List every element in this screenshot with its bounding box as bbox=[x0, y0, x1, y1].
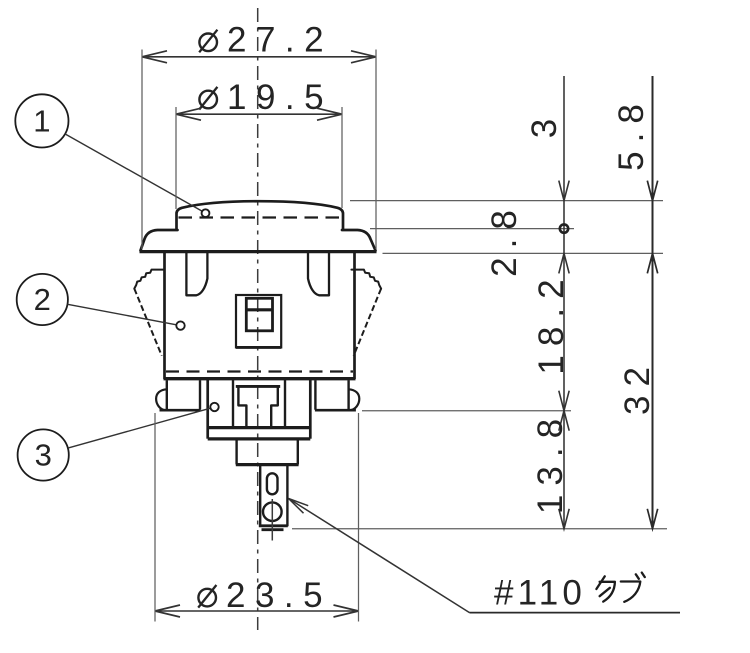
left bottom latch with hook bbox=[166, 380, 168, 409]
outer vertical dimension line bbox=[652, 76, 654, 529]
Ø27.2 dimension line bbox=[142, 56, 376, 58]
balloon 2 circle bbox=[17, 274, 68, 325]
svg-text:1: 1 bbox=[33, 104, 50, 139]
Ø27.2 extension lines bbox=[141, 50, 143, 250]
svg-text:3: 3 bbox=[525, 119, 564, 138]
terminal slot (capsule) bbox=[267, 473, 278, 494]
housing internal vertical right bbox=[284, 380, 286, 428]
Ø19.5 extension lines bbox=[175, 107, 177, 209]
svg-text:5.8: 5.8 bbox=[612, 95, 651, 171]
svg-text:2.8: 2.8 bbox=[485, 201, 524, 277]
lower housing internal shelf (thick) bbox=[208, 426, 311, 429]
extension line: flange top level bbox=[370, 228, 574, 230]
lower housing box right edge bbox=[309, 380, 312, 439]
leader 1 bbox=[65, 134, 202, 211]
dot at flange-top on inner dim line bbox=[560, 224, 568, 232]
left side wing (serrated tab) bbox=[134, 270, 164, 289]
extension line: terminal bottom level bbox=[292, 528, 667, 530]
extension line: cap top level bbox=[350, 200, 663, 202]
katakana BU bbox=[621, 573, 645, 602]
svg-text:23.5: 23.5 bbox=[226, 576, 332, 615]
svg-text:18.2: 18.2 bbox=[532, 270, 571, 374]
leader arrowhead bbox=[289, 499, 309, 506]
mounting flange outline bbox=[141, 230, 178, 251]
button cap outline (part 1, plunger) bbox=[177, 201, 344, 228]
svg-text:3: 3 bbox=[35, 438, 52, 473]
main vertical centerline of button bbox=[257, 8, 259, 630]
body bottom edge (thick) bbox=[164, 377, 356, 380]
katakana TA bbox=[596, 576, 615, 601]
extension line: latch bottom level bbox=[362, 410, 571, 412]
svg-text:32: 32 bbox=[618, 358, 657, 415]
Ø23.5 extension lines bbox=[154, 413, 156, 622]
body hidden line (dashed) bbox=[166, 370, 353, 372]
terminal tab right edge bbox=[286, 466, 288, 527]
right bottom latch with hook bbox=[347, 380, 349, 409]
svg-text:#110: #110 bbox=[494, 574, 586, 613]
switch housing bottom edge (thick) bbox=[236, 346, 281, 349]
T-slot right profile bbox=[271, 388, 278, 427]
leader 2 bbox=[68, 304, 177, 325]
Ø23.5 dimension line bbox=[155, 610, 359, 612]
dimension text Ø27.2 bbox=[199, 34, 217, 52]
lower housing bottom edge (thick) bbox=[208, 437, 311, 440]
svg-text:2: 2 bbox=[34, 282, 51, 317]
lower housing box left edge bbox=[206, 380, 209, 439]
body left edge bbox=[163, 253, 166, 380]
terminal tab left edge bbox=[259, 466, 261, 527]
label underline bbox=[470, 612, 681, 614]
terminal bottom edge (thick) bbox=[259, 524, 288, 527]
balloon 3 circle bbox=[18, 429, 69, 480]
dimension text Ø19.5 bbox=[199, 91, 217, 109]
flange bottom edge (thick) bbox=[140, 250, 377, 253]
body right edge bbox=[353, 253, 356, 380]
terminal bottom tip (second line) bbox=[262, 528, 284, 531]
mounting flange outline right bbox=[342, 230, 376, 251]
terminal centerline bbox=[271, 499, 273, 541]
terminal hole (circle) bbox=[263, 502, 282, 521]
balloon 1 circle bbox=[15, 94, 68, 147]
switch housing outer box bbox=[236, 295, 281, 347]
switch plunger inner box (thick) bbox=[246, 298, 272, 331]
leader 3 bbox=[68, 408, 211, 448]
Ø19.5 dimension line bbox=[176, 113, 342, 115]
housing internal vertical left bbox=[232, 380, 234, 428]
right snap prong bbox=[308, 253, 329, 295]
extension line: flange bottom (panel) level bbox=[383, 252, 664, 254]
stem base box bbox=[237, 439, 298, 464]
left snap prong bbox=[186, 253, 207, 295]
svg-text:27.2: 27.2 bbox=[227, 21, 333, 60]
T-slot left profile bbox=[238, 388, 246, 427]
svg-text:19.5: 19.5 bbox=[227, 78, 333, 117]
cap hidden edge (dashed) bbox=[179, 216, 341, 218]
switch plunger bar (thick) bbox=[246, 308, 272, 311]
right side wing (serrated tab) bbox=[351, 270, 381, 289]
svg-text:13.8: 13.8 bbox=[531, 410, 570, 514]
leader to terminal bbox=[289, 499, 470, 613]
dimension text Ø23.5 bbox=[198, 589, 216, 607]
T-slot top edge (thick) bbox=[236, 385, 280, 388]
inner vertical dimension line bbox=[563, 76, 565, 529]
